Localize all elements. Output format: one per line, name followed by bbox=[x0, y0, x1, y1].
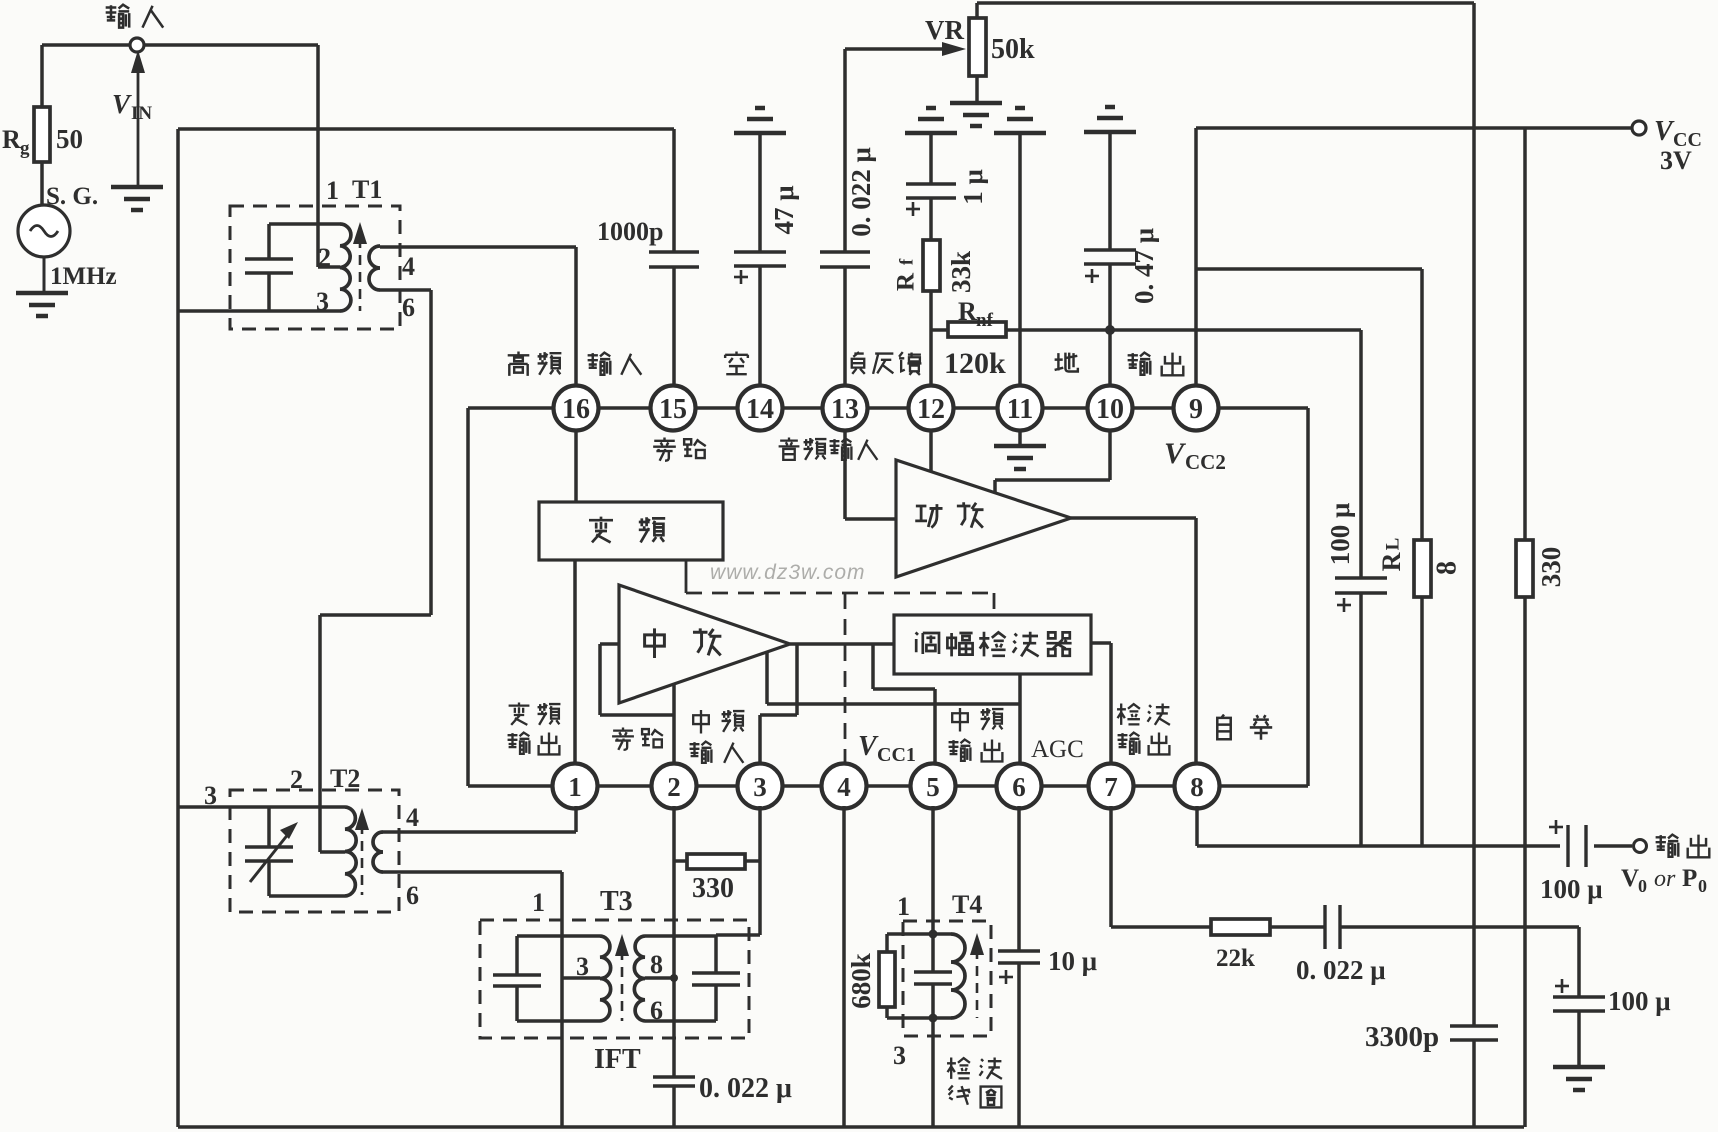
label AGC bbox=[1031, 736, 1084, 763]
svg-text:0. 022 μ: 0. 022 μ bbox=[699, 1073, 792, 1104]
label 330 bbox=[692, 873, 734, 904]
IC pin 6 bbox=[997, 764, 1042, 809]
wire IF out to detector bbox=[790, 642, 894, 646]
svg-text:T2: T2 bbox=[330, 764, 360, 793]
svg-text:nf: nf bbox=[976, 310, 994, 331]
wire x1474 tall bbox=[1472, 3, 1476, 1127]
svg-text:6: 6 bbox=[1012, 772, 1026, 802]
svg-text:AGC: AGC bbox=[1031, 736, 1084, 763]
svg-text:5: 5 bbox=[926, 772, 940, 802]
wire 100u branch down bbox=[1359, 330, 1363, 846]
label 100u output bbox=[1540, 874, 1603, 904]
IC pin 8 bbox=[1175, 764, 1220, 809]
label 8ohm bbox=[1431, 561, 1462, 575]
svg-text:4: 4 bbox=[837, 772, 851, 802]
label 音频输入 pin13 bbox=[779, 438, 878, 460]
ground below source bbox=[16, 293, 68, 316]
wire detector out to pin7 bbox=[1091, 643, 1111, 766]
label 输入 input bbox=[106, 5, 164, 28]
node output terminal bbox=[1634, 840, 1647, 853]
svg-text:8: 8 bbox=[1190, 772, 1204, 802]
svg-text:4: 4 bbox=[402, 252, 415, 281]
svg-text:R: R bbox=[2, 125, 21, 154]
wire AGC to pin6 bbox=[1018, 674, 1022, 766]
label 1u bbox=[958, 169, 988, 205]
svg-text:1000p: 1000p bbox=[597, 217, 663, 246]
wire pin13 to amp input bbox=[845, 428, 896, 519]
IC pin 12 bbox=[909, 386, 954, 431]
ground above 0.47u bbox=[1084, 107, 1136, 132]
label 50k bbox=[991, 34, 1035, 65]
wire pin3 drop bbox=[716, 806, 760, 935]
wire input line top-left bbox=[42, 43, 318, 47]
svg-text:22k: 22k bbox=[1216, 945, 1255, 972]
capacitor 0.022u bottom bbox=[653, 1077, 695, 1086]
amp 功放 power amp bbox=[896, 460, 1071, 577]
svg-text:V: V bbox=[1654, 116, 1675, 147]
transformer T1 bbox=[178, 206, 400, 329]
wire pin7 drop bbox=[1111, 806, 1211, 927]
label 检波线圈 bbox=[947, 1058, 1002, 1108]
ground bottom right bbox=[1553, 1067, 1605, 1090]
svg-text:IN: IN bbox=[131, 103, 152, 124]
amp 中放 IF amp bbox=[619, 585, 790, 703]
svg-text:9: 9 bbox=[1189, 394, 1203, 425]
label 3300p bbox=[1365, 1021, 1439, 1053]
node Vcc terminal bbox=[1632, 121, 1646, 135]
IC pin 11 bbox=[998, 386, 1043, 431]
svg-text:2: 2 bbox=[667, 772, 681, 802]
svg-text:0: 0 bbox=[1698, 876, 1707, 896]
arrow VIN bbox=[131, 50, 145, 186]
label 1000p bbox=[597, 217, 663, 246]
capacitor 10u bbox=[998, 806, 1040, 1127]
wire left frame bbox=[178, 129, 1524, 1127]
ground above pin11 bbox=[994, 108, 1046, 133]
IC pin 9 bbox=[1174, 386, 1219, 431]
svg-text:100 μ: 100 μ bbox=[1540, 874, 1603, 904]
svg-text:100 μ: 100 μ bbox=[1325, 503, 1355, 566]
wire pin16 loop to pin1 bbox=[468, 408, 556, 786]
capacitor 47u bbox=[734, 133, 786, 388]
wire AGC feedback bbox=[767, 652, 1020, 704]
svg-text:330: 330 bbox=[1536, 547, 1566, 588]
svg-text:3: 3 bbox=[893, 1041, 906, 1070]
wire T1 pin4 to pin16 bbox=[380, 247, 576, 388]
label 旁路 pin15 bbox=[653, 438, 706, 461]
wire T2 pin4 to pin1 bbox=[383, 806, 576, 832]
resistor 330 horizontal bbox=[674, 854, 760, 869]
svg-text:1: 1 bbox=[532, 888, 545, 917]
coil T1 secondary bbox=[369, 246, 380, 290]
watermark bbox=[710, 561, 866, 584]
label 自举 pin8 bbox=[1217, 715, 1272, 740]
svg-text:12: 12 bbox=[917, 394, 945, 425]
svg-text:1: 1 bbox=[568, 772, 582, 802]
svg-text:0. 022 μ: 0. 022 μ bbox=[846, 147, 876, 237]
svg-text:47 μ: 47 μ bbox=[769, 185, 799, 234]
svg-text:1: 1 bbox=[326, 176, 339, 205]
wire pin11 top bbox=[1018, 133, 1022, 388]
label VCC1 bbox=[858, 731, 916, 766]
svg-text:15: 15 bbox=[659, 394, 687, 425]
svg-text:6: 6 bbox=[406, 881, 419, 910]
label S.G. bbox=[46, 183, 98, 210]
label 0.47u bbox=[1129, 228, 1159, 304]
label VIN bbox=[112, 89, 152, 124]
svg-text:16: 16 bbox=[562, 394, 590, 425]
label 输出 output bbox=[1656, 835, 1710, 858]
wire pin3 riser bbox=[760, 644, 797, 766]
node input terminal bbox=[130, 38, 144, 52]
svg-text:1: 1 bbox=[897, 892, 910, 921]
label V0 or P0 bbox=[1621, 865, 1707, 896]
svg-text:3V: 3V bbox=[1660, 146, 1692, 175]
resistor 330 right bbox=[1516, 128, 1533, 1127]
capacitor 100u output bbox=[1549, 820, 1586, 867]
IC pin 14 bbox=[738, 386, 783, 431]
wire 100u bottom branch bbox=[1577, 927, 1581, 1066]
svg-text:f: f bbox=[896, 258, 917, 265]
svg-text:50k: 50k bbox=[991, 34, 1035, 65]
label VCC bbox=[1654, 116, 1702, 151]
label 0.022u top bbox=[846, 147, 876, 237]
wire IF amp bypass loop bbox=[600, 644, 674, 715]
label 100u bottom bbox=[1608, 986, 1671, 1016]
svg-text:0. 47 μ: 0. 47 μ bbox=[1129, 228, 1159, 304]
label 输出 pin10 bbox=[1128, 353, 1184, 376]
svg-text:11: 11 bbox=[1007, 394, 1033, 425]
svg-text:g: g bbox=[20, 138, 30, 159]
ground below VIN bbox=[111, 187, 163, 210]
wire T2 pin6 to T3 bbox=[383, 870, 562, 874]
wire pin2 drop bbox=[672, 806, 676, 1127]
IC pin 7 bbox=[1089, 764, 1134, 809]
capacitor 0.47u bbox=[1084, 132, 1136, 388]
svg-text:V: V bbox=[1164, 437, 1187, 470]
svg-text:T4: T4 bbox=[952, 890, 982, 919]
svg-text:680k: 680k bbox=[846, 953, 876, 1009]
label 1MHz bbox=[50, 263, 117, 290]
ground above 47u bbox=[734, 108, 786, 133]
wire pin9 to pin8 bootstrap bbox=[1216, 408, 1308, 786]
label 高频 输入 bbox=[508, 352, 642, 376]
capacitor 1000p bbox=[649, 129, 699, 388]
svg-text:R: R bbox=[958, 297, 977, 326]
label 10u bbox=[1048, 946, 1097, 976]
block 调幅检波器 AM detector bbox=[894, 615, 1091, 674]
wire T1 pin6 down-left to T2 tap bbox=[320, 290, 431, 852]
svg-text:3: 3 bbox=[316, 287, 329, 316]
svg-text:1 μ: 1 μ bbox=[958, 169, 988, 205]
svg-text:10 μ: 10 μ bbox=[1048, 946, 1097, 976]
label 3V bbox=[1660, 146, 1692, 175]
wire mixer to pin1 bbox=[573, 560, 577, 766]
potentiometer VR 50k bbox=[969, 3, 986, 102]
label 负反馈 pin13 bbox=[852, 352, 922, 375]
IC pin 2 bbox=[652, 764, 697, 809]
label 22k bbox=[1216, 945, 1255, 972]
IC pin 15 bbox=[651, 386, 696, 431]
wire Vcc bus bbox=[1196, 126, 1632, 130]
label T4 pins bbox=[893, 890, 982, 1070]
svg-text:L: L bbox=[1382, 538, 1403, 551]
wire pin10 to amp bbox=[995, 428, 1110, 492]
svg-text:2: 2 bbox=[290, 765, 303, 794]
svg-text:3300p: 3300p bbox=[1365, 1021, 1439, 1053]
resistor Rg bbox=[34, 45, 50, 205]
svg-text:8: 8 bbox=[650, 950, 663, 979]
svg-text:2: 2 bbox=[318, 243, 331, 272]
capacitor 100u right bbox=[1335, 578, 1387, 612]
label 330 right bbox=[1536, 547, 1566, 588]
svg-text:3: 3 bbox=[576, 952, 589, 981]
wire pin8 drop bbox=[1195, 806, 1199, 846]
svg-text:7: 7 bbox=[1104, 772, 1118, 802]
label VR bbox=[925, 15, 964, 45]
label RL bbox=[1377, 538, 1406, 572]
svg-text:0. 022 μ: 0. 022 μ bbox=[1296, 955, 1386, 985]
label Rg bbox=[2, 125, 30, 159]
ground below pin11 bbox=[994, 428, 1046, 469]
svg-text:6: 6 bbox=[650, 996, 663, 1025]
wire pin9 riser bbox=[1194, 128, 1198, 388]
label 50 bbox=[56, 124, 83, 154]
capacitor 0.022u top bbox=[820, 49, 870, 388]
svg-text:100 μ: 100 μ bbox=[1608, 986, 1671, 1016]
label Rf bbox=[893, 258, 920, 291]
resistor RL bbox=[1414, 269, 1431, 846]
svg-text:R: R bbox=[1377, 552, 1406, 571]
svg-text:3: 3 bbox=[204, 781, 217, 810]
svg-text:T1: T1 bbox=[352, 175, 382, 204]
svg-text:T3: T3 bbox=[600, 886, 633, 917]
label 33k bbox=[946, 251, 976, 293]
resistor Rf 33k bbox=[923, 240, 940, 388]
wire IF out to pin5 bbox=[873, 644, 935, 766]
label 中频输入 pin3 bbox=[690, 710, 745, 763]
source S.G. 1MHz bbox=[18, 205, 70, 292]
svg-text:1MHz: 1MHz bbox=[50, 263, 117, 290]
svg-text:S. G.: S. G. bbox=[46, 183, 98, 210]
label 变频输出 pin1 bbox=[508, 703, 561, 755]
label 680k bbox=[846, 953, 876, 1009]
svg-text:0: 0 bbox=[1638, 876, 1647, 896]
wire pin2 riser bbox=[672, 684, 676, 766]
svg-text:4: 4 bbox=[406, 803, 419, 832]
wire output bus bbox=[1197, 844, 1632, 848]
svg-text:6: 6 bbox=[402, 293, 415, 322]
label 中频输出 pin5 bbox=[949, 708, 1004, 761]
IC pin 13 bbox=[823, 386, 868, 431]
svg-text:V: V bbox=[1621, 865, 1639, 892]
label 旁路 pin2 bbox=[612, 728, 663, 750]
wire pin16 to mixer bbox=[574, 428, 578, 502]
resistor Rnf 120k bbox=[931, 322, 1361, 337]
svg-text:50: 50 bbox=[56, 124, 83, 154]
ground above 1u bbox=[905, 108, 957, 133]
svg-text:33k: 33k bbox=[946, 251, 976, 293]
capacitor 1u bbox=[906, 133, 956, 240]
wire bottom pin row bbox=[555, 784, 1308, 788]
label Rnf bbox=[958, 297, 994, 331]
wire top pin row bbox=[556, 406, 1216, 410]
label 120k bbox=[944, 347, 1006, 380]
capacitor 3300p bbox=[1450, 1026, 1498, 1040]
svg-text:14: 14 bbox=[746, 394, 774, 425]
wire VR wiper bbox=[845, 42, 966, 56]
label 空 pin14 bbox=[725, 352, 748, 375]
block 变频 mixer bbox=[539, 502, 723, 560]
IC pin 5 bbox=[911, 764, 956, 809]
label T2 pins bbox=[204, 764, 419, 910]
wire input drop to T1 tap 2 bbox=[318, 45, 340, 267]
svg-text:8: 8 bbox=[1431, 561, 1462, 575]
svg-text:3: 3 bbox=[753, 772, 767, 802]
wire pin12 stub bbox=[929, 428, 933, 472]
wire top bus bbox=[977, 1, 1474, 5]
IC pin 10 bbox=[1088, 386, 1133, 431]
ground below VR bbox=[950, 103, 1002, 126]
svg-text:330: 330 bbox=[692, 873, 734, 904]
label T1 pins bbox=[316, 175, 415, 322]
svg-text:or: or bbox=[1654, 866, 1676, 892]
svg-text:www.dz3w.com: www.dz3w.com bbox=[710, 561, 866, 584]
dashed internal VCC1 net bbox=[686, 560, 994, 766]
transformer T4 detector coil bbox=[879, 806, 991, 1127]
label 地 pin11 bbox=[1055, 353, 1078, 372]
svg-text:R: R bbox=[893, 272, 920, 291]
svg-text:P: P bbox=[1682, 865, 1697, 892]
label 0.022u series bbox=[1296, 955, 1386, 985]
label 检波输出 pin7 bbox=[1117, 704, 1170, 755]
wire amp output to pin8 bbox=[1071, 518, 1196, 766]
IC pin 16 bbox=[554, 386, 599, 431]
svg-text:CC2: CC2 bbox=[1185, 450, 1226, 474]
svg-text:CC1: CC1 bbox=[877, 744, 916, 766]
label VCC2 bbox=[1164, 437, 1226, 474]
label IFT bbox=[594, 1044, 641, 1075]
transformer T3 IFT bbox=[480, 872, 749, 1127]
label T3 pins bbox=[532, 886, 663, 1025]
svg-text:120k: 120k bbox=[944, 347, 1006, 380]
wire y269 to RL bbox=[1196, 267, 1422, 271]
svg-text:VR: VR bbox=[925, 15, 964, 45]
IC pin 1 bbox=[553, 764, 598, 809]
resistor 22k bbox=[1211, 919, 1325, 935]
transformer T2 bbox=[178, 790, 399, 912]
svg-text:IFT: IFT bbox=[594, 1044, 641, 1075]
label 47u bbox=[769, 185, 799, 234]
svg-text:10: 10 bbox=[1096, 394, 1124, 425]
label 0.022u bottom bbox=[699, 1073, 792, 1104]
IC pin 3 bbox=[738, 764, 783, 809]
IC pin 4 bbox=[822, 764, 867, 809]
node junction Rnf/0.47u bbox=[1105, 325, 1115, 335]
capacitor 100u bottom bbox=[1553, 979, 1605, 1011]
svg-text:13: 13 bbox=[831, 394, 859, 425]
capacitor 0.022u series bbox=[1325, 905, 1579, 949]
svg-text:V: V bbox=[858, 731, 879, 762]
label 100u right bbox=[1325, 503, 1355, 566]
wire pin4 drop bbox=[842, 806, 846, 1127]
svg-text:V: V bbox=[112, 89, 132, 119]
